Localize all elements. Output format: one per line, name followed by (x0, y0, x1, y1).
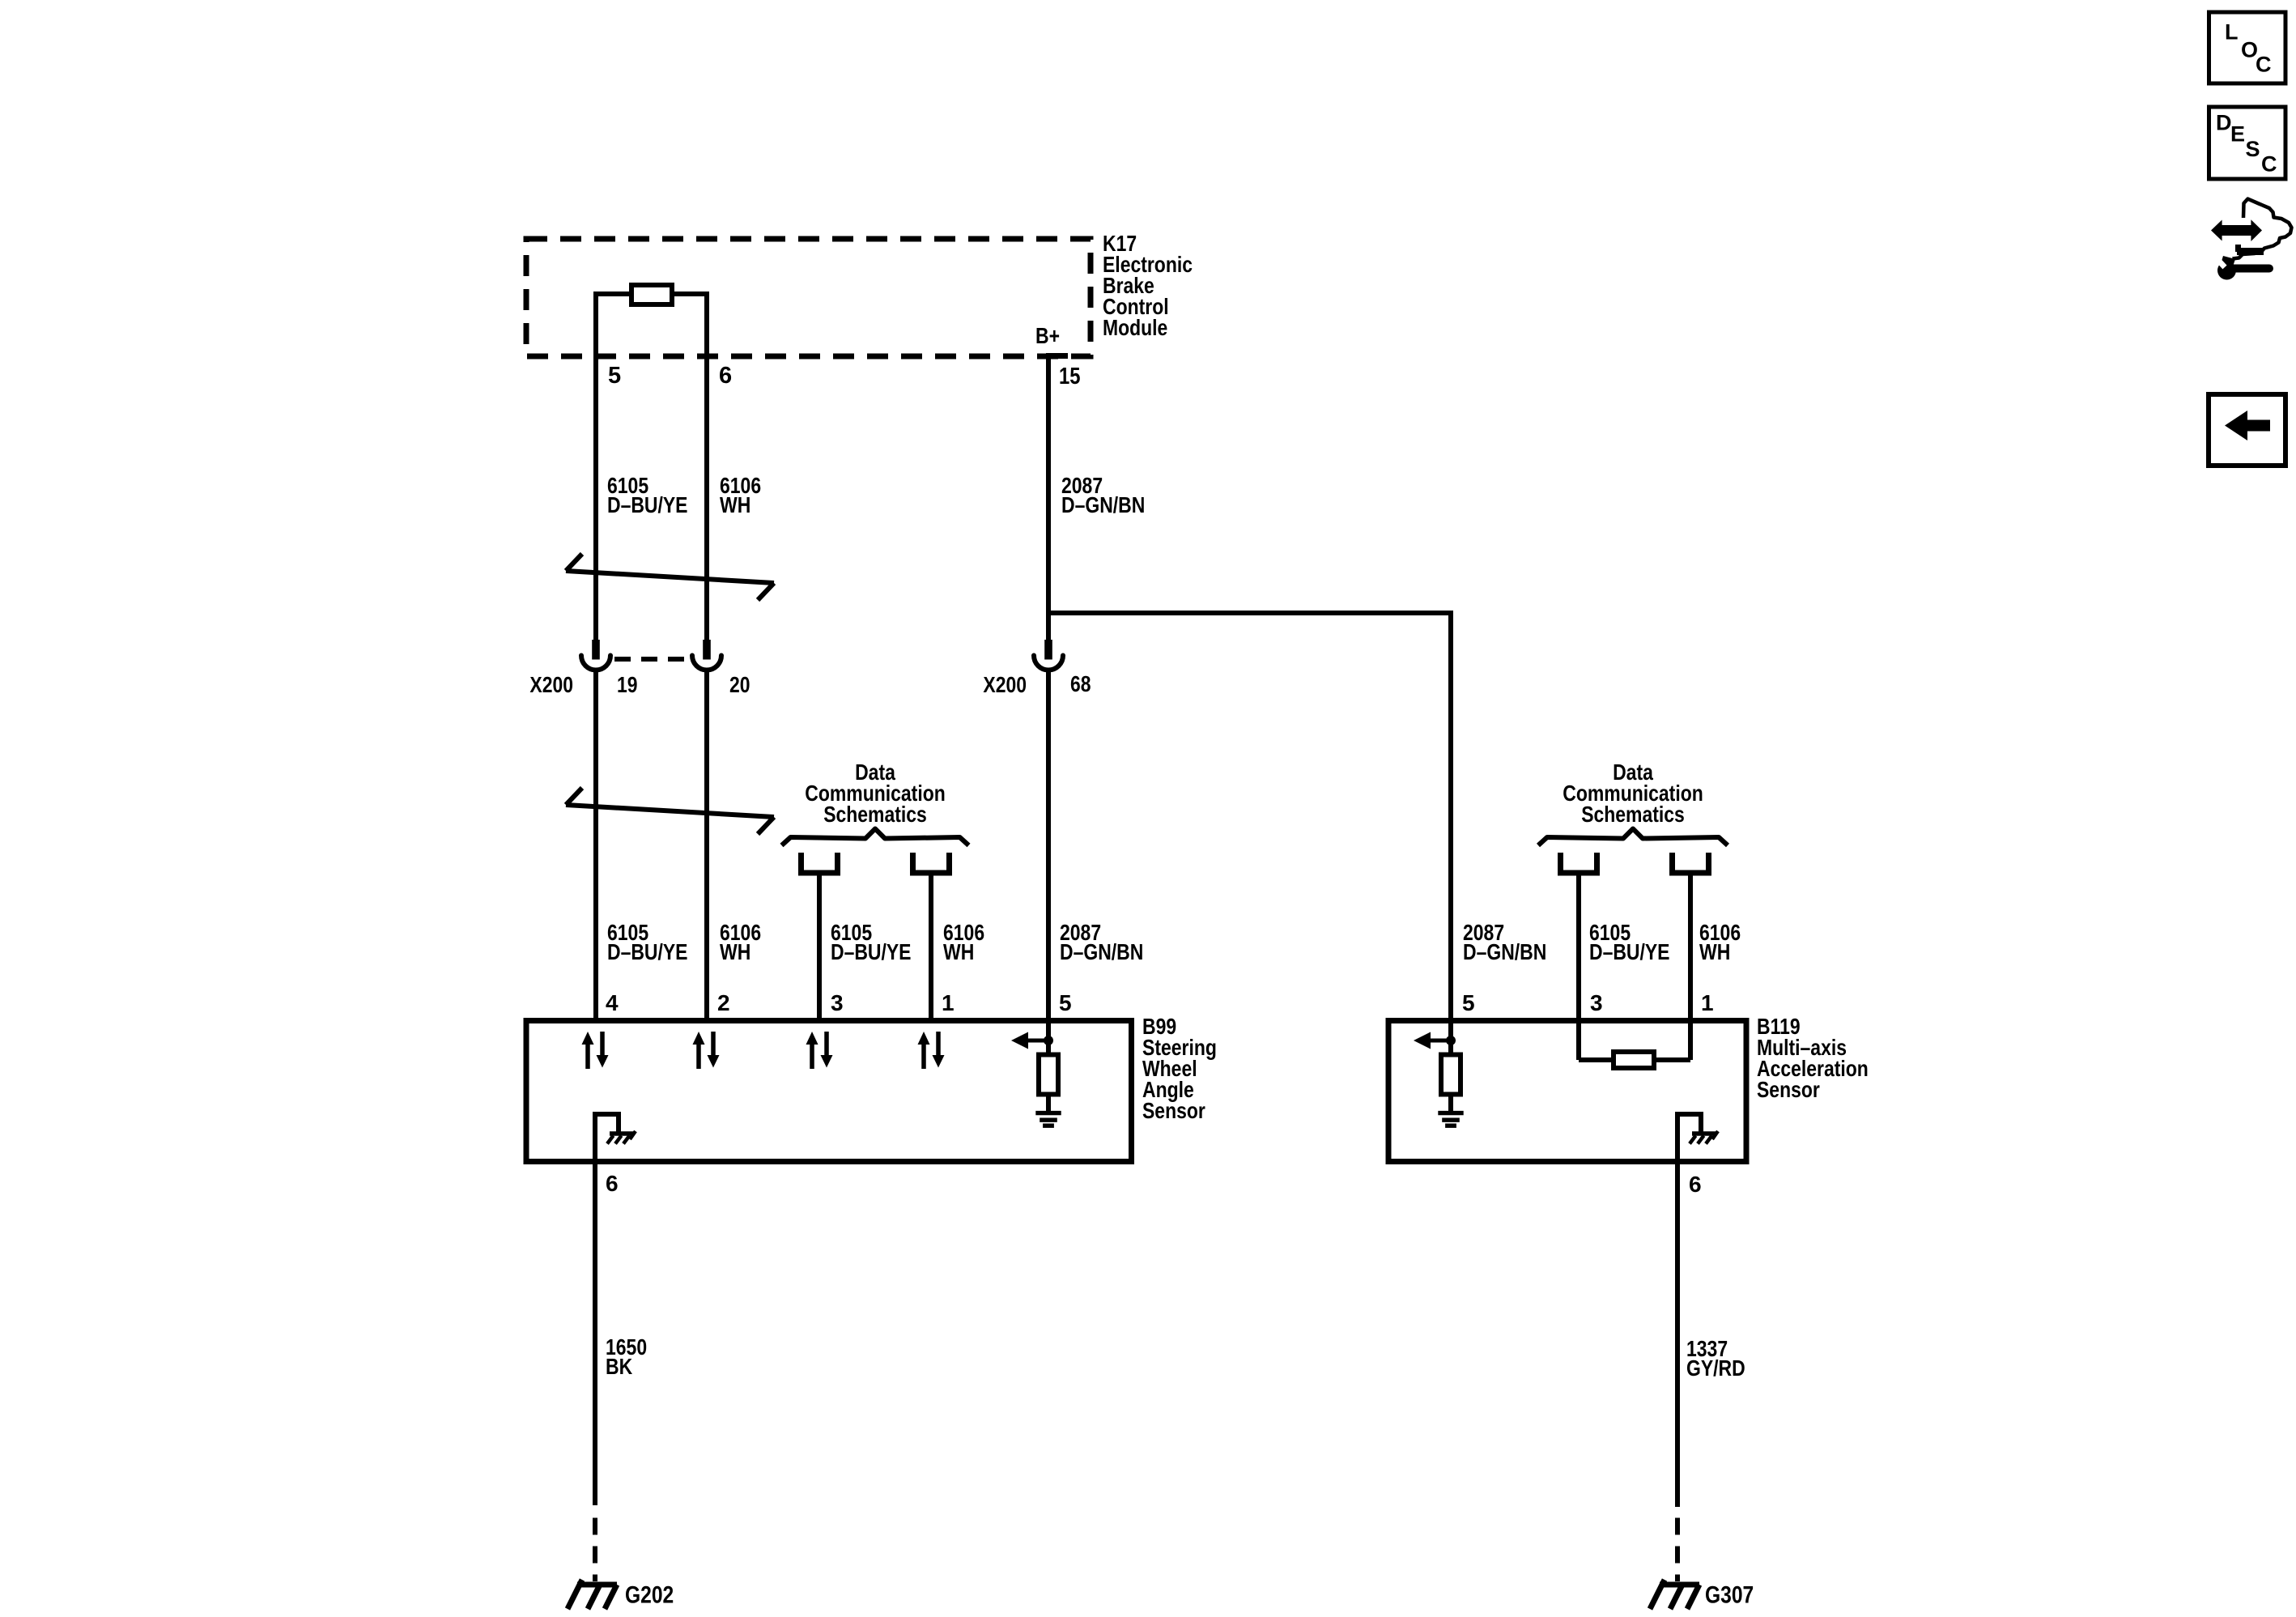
connector X200 pin 19 (581, 640, 610, 670)
break symbol (wires continue) upper (566, 554, 774, 600)
svg-text:D–GN/BN: D–GN/BN (1061, 492, 1145, 517)
svg-text:1: 1 (942, 990, 955, 1015)
svg-text:3: 3 (1590, 990, 1603, 1015)
svg-text:Schematics: Schematics (823, 802, 927, 827)
svg-text:BK: BK (606, 1354, 632, 1379)
svg-text:S: S (2246, 137, 2260, 161)
wire 1337 GY/RD from B119 pin 6 (1675, 1161, 1680, 1507)
wire 6106 WH from K17 pin 6 to X200 pin 20 (704, 291, 709, 640)
internal resistor between B119 pins 3 and 1 (1579, 1020, 1690, 1068)
component B99 Steering Wheel Angle Sensor box (526, 1021, 1132, 1162)
bidirectional signal arrows at B99 pin 2 (693, 1032, 720, 1069)
label Data Communication Schematics (left) (805, 760, 946, 827)
svg-text:6: 6 (1689, 1172, 1702, 1197)
svg-text:2: 2 (717, 990, 730, 1015)
wire label 6105 D–BU/YE (B119 pin3) (1589, 920, 1670, 964)
svg-text:G307: G307 (1705, 1582, 1754, 1609)
icon connector-harness double arrow (2211, 219, 2262, 241)
terminator: arrow, junction, resistor and ground at B119 pin 5 (1414, 1020, 1464, 1126)
wire 6105 stub to B99 pin 3 (817, 875, 822, 1020)
wire pin5 loop horizontal (593, 291, 631, 296)
module K17 Electronic Brake Control Module dashed outline (526, 239, 1091, 356)
wire 6105 from X200-19 to B99 pin 4 (593, 671, 598, 1020)
svg-text:GY/RD: GY/RD (1686, 1355, 1745, 1381)
wire 2087 vertical down to B119 pin 5 (1448, 611, 1453, 1020)
dashed continuation of wire 1337 (1675, 1518, 1680, 1582)
svg-text:4: 4 (606, 990, 619, 1015)
break symbol (wires continue) lower (566, 788, 774, 834)
wire label 6106 WH (B119 pin1) (1699, 920, 1741, 964)
label Data Communication Schematics (right) (1563, 760, 1703, 827)
icon LOC box (2209, 12, 2286, 83)
K17 label (1103, 231, 1193, 340)
resistor internal to K17 between pins 5 and 6 (631, 285, 672, 304)
wire 1650 BK from B99 pin 6 (593, 1161, 597, 1505)
icon back arrow box (2209, 394, 2285, 466)
svg-text:D–BU/YE: D–BU/YE (1589, 939, 1670, 964)
svg-text:19: 19 (617, 672, 638, 697)
brace (left) (782, 829, 969, 846)
ground G202 symbol (568, 1580, 617, 1609)
stub connector to data bus (B99 pin 3) (798, 853, 840, 873)
svg-text:D–BU/YE: D–BU/YE (607, 492, 688, 517)
svg-text:WH: WH (943, 939, 974, 964)
icon DESC box (2209, 107, 2286, 179)
connector X200 pin 20 (692, 640, 721, 670)
svg-text:6: 6 (606, 1171, 619, 1196)
svg-text:WH: WH (720, 939, 750, 964)
svg-text:WH: WH (1699, 939, 1730, 964)
bidirectional signal arrows at B99 pin 3 (806, 1032, 833, 1069)
dashed continuation of wire 1650 (593, 1518, 597, 1582)
svg-text:D–GN/BN: D–GN/BN (1463, 939, 1546, 964)
wire label 6105 D–BU/YE (B99 pin3) (831, 920, 912, 964)
svg-text:6: 6 (719, 363, 732, 389)
svg-text:B+: B+ (1035, 323, 1060, 348)
svg-text:15: 15 (1059, 364, 1081, 389)
svg-text:WH: WH (720, 492, 750, 517)
svg-text:1: 1 (1701, 990, 1714, 1015)
bidirectional signal arrows at B99 pin 1 (918, 1032, 945, 1069)
stub connector to data bus (B99 pin 1) (910, 853, 952, 873)
ground G307 symbol (1650, 1580, 1699, 1609)
wire 6105 D-BU/YE from K17 pin 5 to X200 pin 19 (593, 291, 598, 640)
wire label 2087 D–GN/BN (B119 pin5) (1463, 920, 1546, 964)
svg-text:5: 5 (1462, 990, 1475, 1015)
svg-text:5: 5 (1059, 990, 1072, 1015)
connector X200 pin 68 (1034, 640, 1063, 670)
icon wrench (2213, 255, 2269, 280)
wire label 6106 WH (B99 pin2) (720, 920, 761, 964)
svg-text:3: 3 (831, 990, 844, 1015)
bidirectional signal arrows at B99 pin 4 (582, 1032, 609, 1069)
wire pin6 loop horizontal (672, 291, 709, 296)
svg-text:G202: G202 (625, 1582, 674, 1609)
wire label 2087 D–GN/BN (B99 pin5) (1060, 920, 1143, 964)
wire 6106 stub to B119 pin 1 (1688, 875, 1693, 1020)
svg-text:20: 20 (729, 672, 750, 697)
stub connector to data bus (B119 pin 3) (1558, 853, 1600, 873)
wire 6106 stub to B99 pin 1 (929, 875, 933, 1020)
B99 label (1142, 1014, 1217, 1123)
svg-text:L: L (2225, 20, 2239, 45)
dashed tie between X200 pins 19 and 20 (614, 657, 689, 662)
svg-text:5: 5 (608, 363, 621, 389)
brace (right) (1538, 829, 1728, 846)
terminator: arrow, junction, resistor and ground at B99 pin 5 (1011, 1020, 1061, 1126)
wire 6106 from X200-20 to B99 pin 2 (704, 671, 709, 1020)
chassis ground symbol inside B99 (pin 6) (593, 1114, 636, 1164)
svg-text:Sensor: Sensor (1142, 1098, 1205, 1123)
wire 2087 from X200-68 to B99 pin 5 (1046, 671, 1051, 1020)
wire 6105 stub to B119 pin 3 (1576, 875, 1581, 1020)
svg-text:C: C (2261, 152, 2277, 177)
svg-text:Module: Module (1103, 315, 1167, 340)
svg-text:Sensor: Sensor (1757, 1077, 1820, 1102)
chassis ground symbol inside B119 (pin 6) (1675, 1114, 1718, 1164)
wire label 1650 BK (606, 1334, 647, 1379)
svg-text:68: 68 (1070, 671, 1091, 696)
svg-text:E: E (2230, 122, 2245, 147)
svg-text:Schematics: Schematics (1581, 802, 1685, 827)
icon harness outline (2233, 199, 2292, 259)
wire label 6105 D–BU/YE (B99 pin4) (607, 920, 688, 964)
svg-text:C: C (2256, 53, 2272, 77)
component B119 Multi-axis Acceleration Sensor box (1388, 1021, 1746, 1162)
wire label 1337 GY/RD (1686, 1336, 1745, 1381)
svg-text:X200: X200 (529, 672, 573, 697)
svg-text:D–BU/YE: D–BU/YE (831, 939, 912, 964)
wire label 6105 D-BU/YE (upper left) (607, 473, 688, 517)
svg-text:D: D (2216, 111, 2232, 135)
stub connector to data bus (B119 pin 1) (1669, 853, 1711, 873)
svg-text:X200: X200 (983, 672, 1027, 697)
wire label 6106 WH (B99 pin1) (943, 920, 984, 964)
svg-text:D–GN/BN: D–GN/BN (1060, 939, 1143, 964)
wire label 2087 D-GN/BN (upper) (1061, 473, 1145, 517)
wire 2087 branch horizontal to B119 (1048, 611, 1451, 615)
wire label 6106 WH (upper) (720, 473, 761, 517)
svg-text:D–BU/YE: D–BU/YE (607, 939, 688, 964)
wire 2087 D-GN/BN from K17 pin 15 (B+) to X200 pin 68 (1046, 354, 1051, 640)
B119 label (1757, 1014, 1869, 1102)
wire elbow at K17 pin 15 (1046, 353, 1068, 359)
